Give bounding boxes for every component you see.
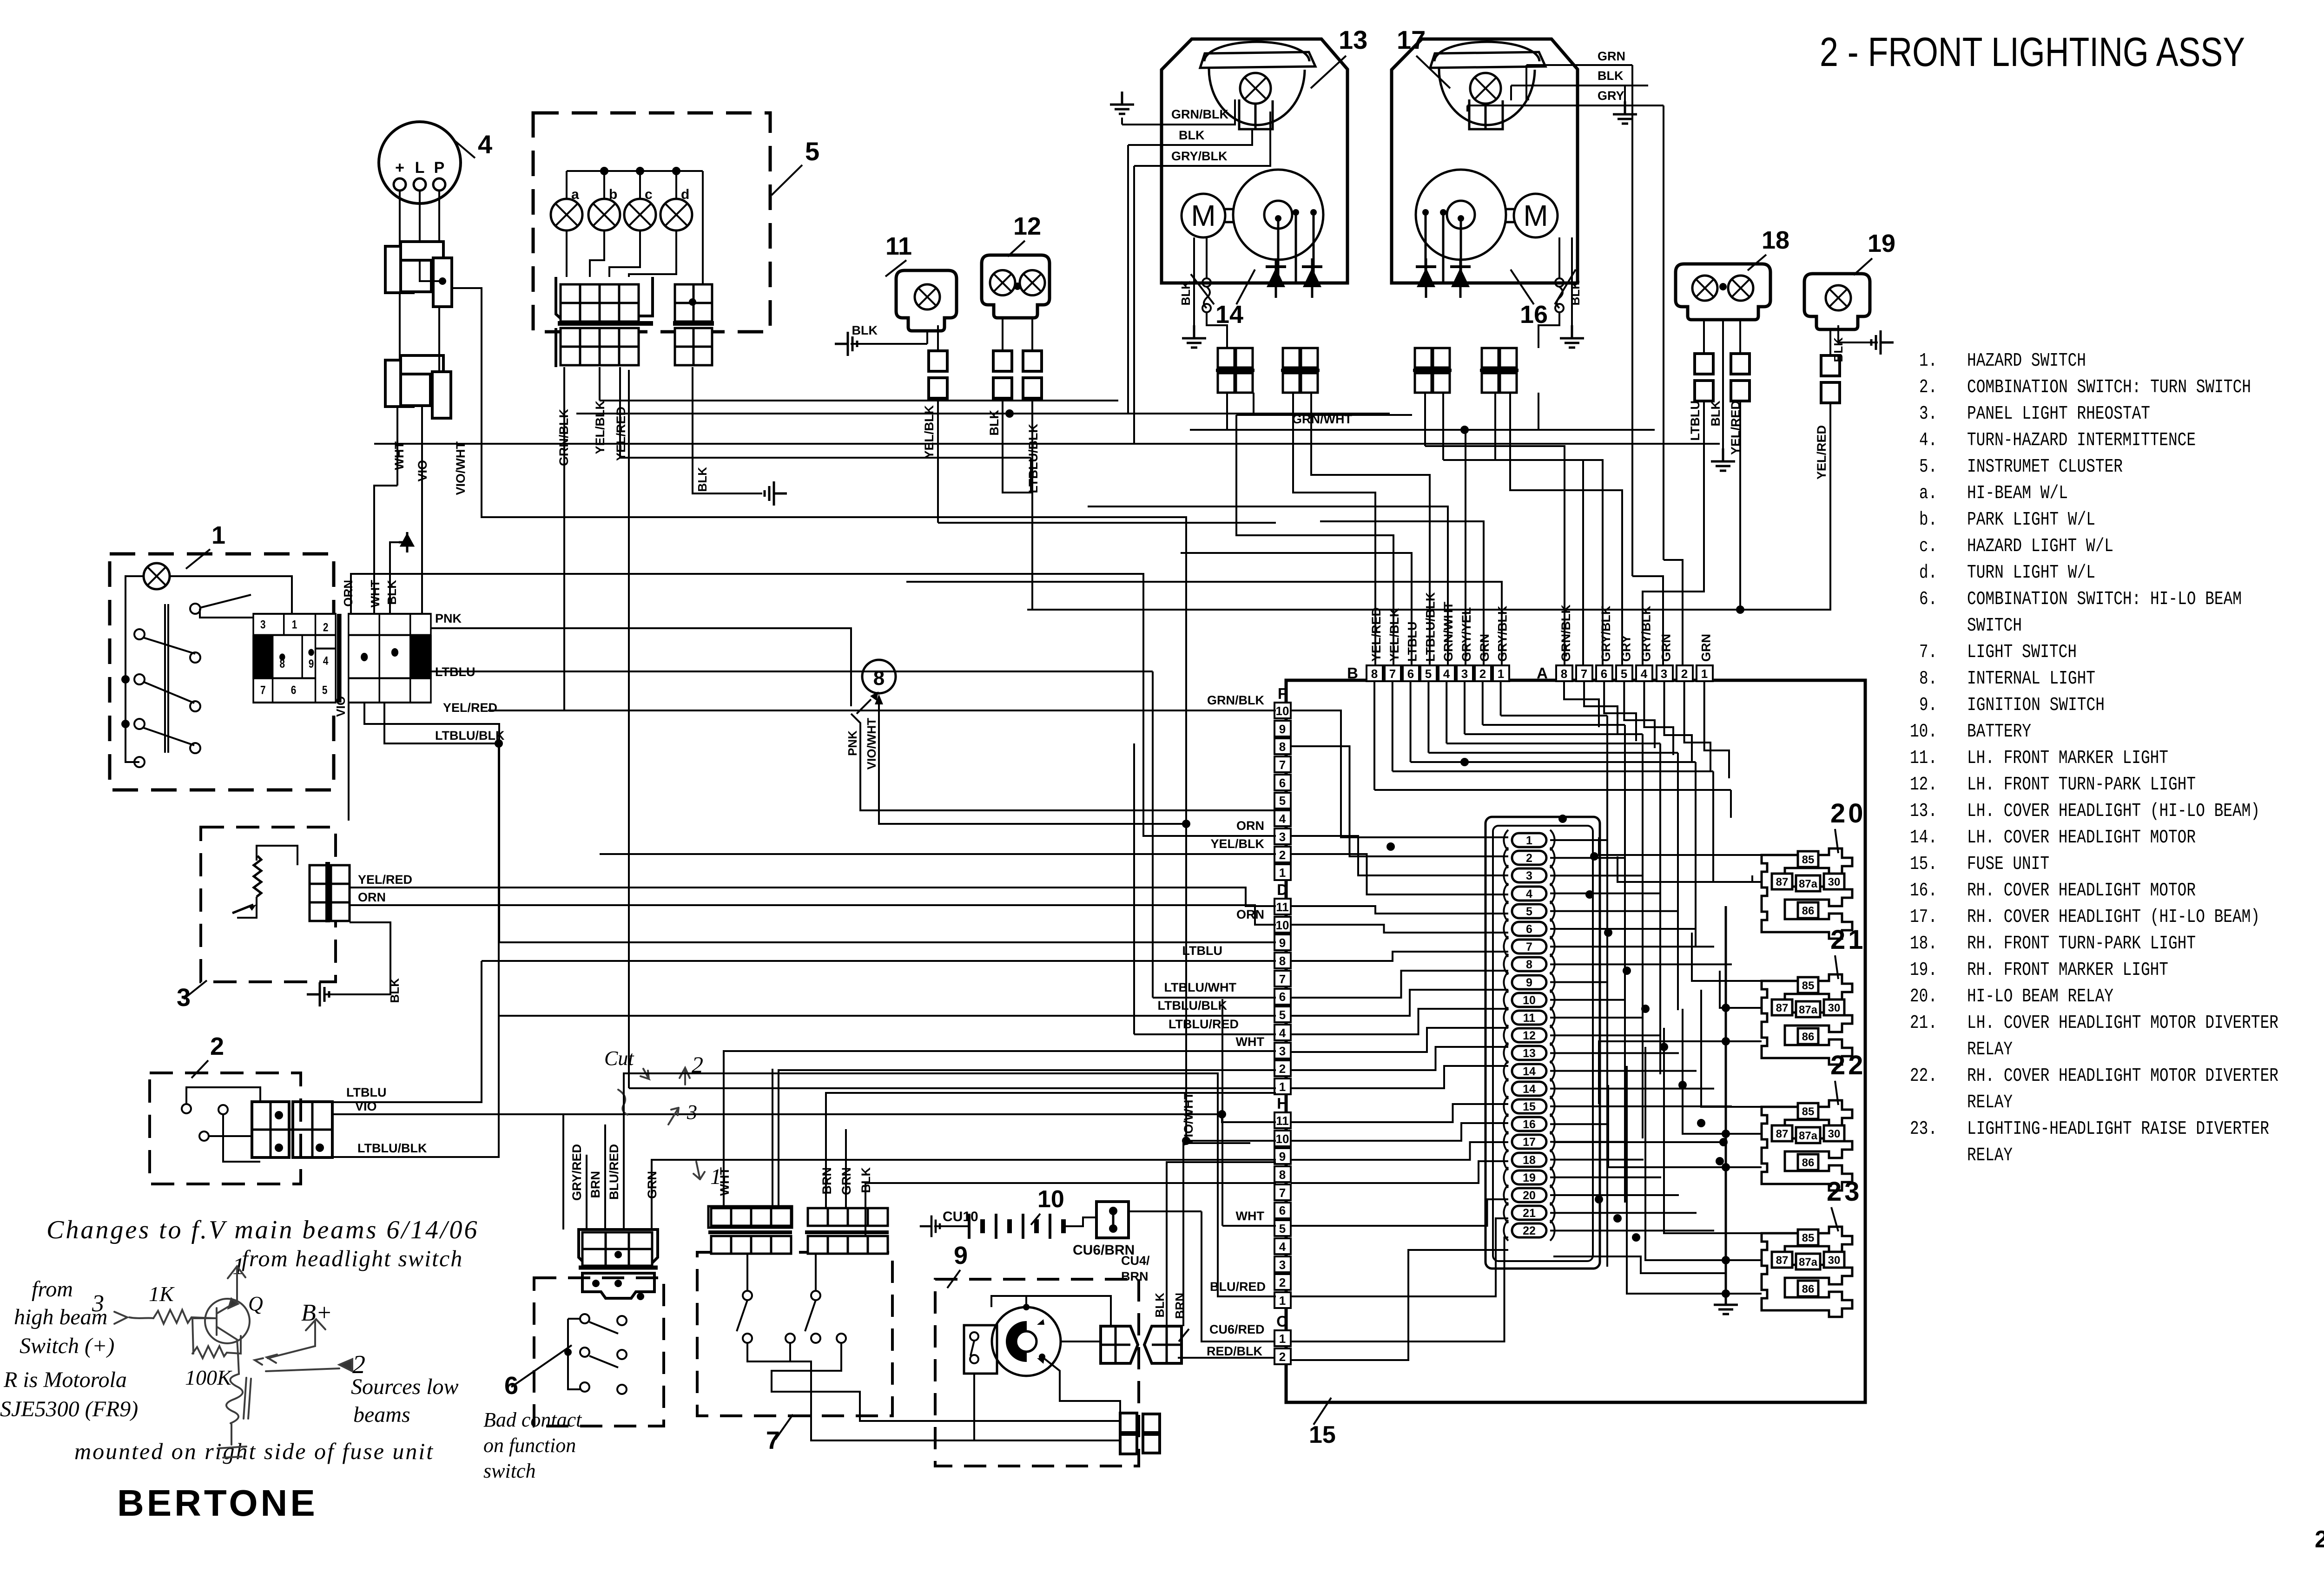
svg-text:PARK LIGHT W/L: PARK LIGHT W/L: [1967, 509, 2095, 531]
svg-text:D: D: [1277, 881, 1288, 898]
svg-text:87a: 87a: [1799, 1256, 1818, 1269]
svg-text:2: 2: [1681, 667, 1688, 681]
svg-text:YEL/RED: YEL/RED: [443, 701, 497, 715]
wires inside 9: [1026, 1296, 1111, 1326]
svg-text:8: 8: [1371, 667, 1378, 681]
connector below 11: [937, 325, 939, 351]
svg-text:BLU/RED: BLU/RED: [1210, 1280, 1266, 1294]
svg-text:LIGHTING-HEADLIGHT RAISE DIVER: LIGHTING-HEADLIGHT RAISE DIVERTER: [1967, 1118, 2269, 1140]
LH front turn-park light 12: [982, 255, 1050, 318]
svg-text:LTBLU/WHT: LTBLU/WHT: [1164, 980, 1237, 994]
svg-text:HI-BEAM W/L: HI-BEAM W/L: [1967, 483, 2068, 504]
svg-text:14: 14: [1523, 1083, 1536, 1096]
svg-text:YEL/BLK: YEL/BLK: [1210, 837, 1264, 851]
svg-text:B+: B+: [301, 1300, 332, 1326]
LH front marker light 11: [896, 270, 957, 331]
svg-text:9: 9: [1279, 722, 1286, 736]
svg-text:17: 17: [1523, 1136, 1536, 1149]
svg-text:INSTRUMET CLUSTER: INSTRUMET CLUSTER: [1967, 456, 2123, 478]
BLK BRN risers: [1167, 1162, 1276, 1326]
wire RED/BLK to O2: [1178, 1357, 1274, 1359]
svg-text:30: 30: [1828, 1128, 1841, 1140]
svg-text:RELAY: RELAY: [1967, 1092, 2013, 1113]
svg-text:BLK: BLK: [695, 467, 709, 492]
internal light ref 8: [862, 660, 896, 693]
svg-text:1: 1: [1279, 1294, 1286, 1308]
svg-text:87: 87: [1776, 1128, 1789, 1140]
panel light rheostat 3 dashed box: [201, 827, 336, 982]
svg-text:3: 3: [1279, 1258, 1286, 1272]
svg-text:20: 20: [1523, 1189, 1536, 1202]
svg-text:6: 6: [504, 1372, 518, 1400]
svg-text:5: 5: [1526, 905, 1532, 918]
svg-text:15.: 15.: [1910, 854, 1937, 875]
svg-text:10.: 10.: [1910, 721, 1937, 743]
svg-text:ORN: ORN: [1236, 819, 1264, 833]
svg-text:5: 5: [322, 684, 328, 697]
svg-text:2: 2: [1479, 667, 1486, 681]
svg-text:19.: 19.: [1910, 960, 1937, 981]
svg-text:9: 9: [1279, 1150, 1286, 1164]
svg-text:1: 1: [1498, 667, 1504, 681]
relay 22 RH cover headlight motor diverter relay: [1762, 1100, 1852, 1190]
svg-text:2: 2: [1279, 848, 1286, 862]
svg-text:86: 86: [1802, 1031, 1815, 1043]
svg-text:7: 7: [1279, 972, 1286, 986]
wire CU6/RED to O1: [1202, 1211, 1274, 1341]
svg-text:RH. COVER HEADLIGHT (HI-LO BEA: RH. COVER HEADLIGHT (HI-LO BEAM): [1967, 907, 2260, 928]
svg-text:3: 3: [687, 1101, 697, 1124]
svg-text:PNK: PNK: [435, 611, 462, 625]
connectors CU4 of ignition: [1101, 1326, 1138, 1363]
svg-text:LTBLU/BLK: LTBLU/BLK: [1158, 999, 1228, 1013]
svg-text:1: 1: [1701, 667, 1708, 681]
wire LTBLU from hazard switch: [431, 671, 1153, 672]
svg-text:13: 13: [1339, 25, 1367, 54]
fuse unit internal ground rail: [1725, 906, 1727, 1301]
svg-text:mounted on right side of fuse: mounted on right side of fuse unit: [74, 1438, 434, 1464]
svg-text:LTBLU/BLK: LTBLU/BLK: [357, 1141, 427, 1155]
svg-text:17: 17: [1397, 25, 1426, 54]
svg-text:7: 7: [260, 684, 266, 697]
svg-text:30: 30: [1828, 876, 1841, 888]
svg-text:2: 2: [352, 1350, 365, 1379]
svg-text:7: 7: [1526, 940, 1532, 953]
headlight assembly 17 (RH cover headlight hi-lo beam): [1392, 39, 1578, 283]
connectors below 12: [1002, 318, 1004, 351]
svg-text:GRY: GRY: [1598, 89, 1624, 103]
connector A wire labels: [1559, 604, 1575, 663]
svg-text:85: 85: [1802, 1232, 1815, 1244]
svg-text:RH. COVER HEADLIGHT MOTOR: RH. COVER HEADLIGHT MOTOR: [1967, 880, 2196, 901]
svg-text:Switch (+): Switch (+): [20, 1334, 114, 1358]
svg-text:30: 30: [1828, 1254, 1841, 1267]
svg-text:9: 9: [309, 657, 314, 670]
svg-text:IGNITION SWITCH: IGNITION SWITCH: [1967, 695, 2105, 716]
connector B wire labels: [1369, 604, 1386, 663]
svg-text:LH. COVER HEADLIGHT (HI-LO BEA: LH. COVER HEADLIGHT (HI-LO BEAM): [1967, 801, 2260, 822]
ignition aux contacts: [964, 1325, 997, 1374]
svg-text:16: 16: [1520, 301, 1548, 329]
wire VIO long bus from switch 2: [332, 1114, 1276, 1122]
svg-text:GRN/BLK: GRN/BLK: [1207, 693, 1264, 707]
svg-text:4: 4: [1279, 1240, 1286, 1254]
connector of unit 4: [385, 246, 413, 293]
svg-text:3: 3: [1279, 830, 1286, 844]
bus wires into left connector of fuse unit: [488, 710, 1276, 711]
svg-text:85: 85: [1802, 1105, 1815, 1118]
svg-text:9.: 9.: [1919, 695, 1937, 716]
svg-text:LTBLU: LTBLU: [1182, 944, 1222, 958]
svg-text:BLK: BLK: [1179, 281, 1193, 306]
svg-text:GRN/BLK: GRN/BLK: [1171, 107, 1228, 121]
svg-text:16.: 16.: [1910, 880, 1937, 901]
svg-text:1: 1: [1279, 1080, 1286, 1094]
svg-text:VIO/WHT: VIO/WHT: [1182, 1092, 1195, 1146]
switch 1 connector block: [253, 614, 431, 703]
svg-text:87: 87: [1776, 876, 1789, 888]
svg-text:SJE5300 (FR9): SJE5300 (FR9): [0, 1397, 138, 1421]
svg-text:Changes to f.V main beams 6: Changes to f.V main beams 6/14/06: [46, 1216, 479, 1244]
instrument cluster 5 dashed box: [533, 113, 770, 332]
svg-text:4: 4: [1279, 1026, 1286, 1040]
svg-text:14: 14: [1215, 301, 1243, 329]
svg-text:d.: d.: [1919, 562, 1937, 584]
relay 23 lighting-headlight raise diverter relay: [1762, 1227, 1852, 1317]
svg-text:P: P: [434, 159, 445, 177]
switch 7 outputs to ignition connectors: [832, 1392, 1120, 1421]
diodes under headlight 17: [1425, 258, 1427, 298]
svg-text:2: 2: [1279, 1276, 1286, 1289]
svg-text:14: 14: [1523, 1065, 1536, 1078]
svg-text:A: A: [1537, 664, 1548, 682]
svg-text:11: 11: [1276, 900, 1289, 914]
svg-text:21.: 21.: [1910, 1013, 1937, 1034]
cluster connectors: [556, 277, 653, 322]
svg-text:LTBLU/BLK: LTBLU/BLK: [435, 729, 505, 743]
svg-text:LTBLU: LTBLU: [1688, 401, 1702, 441]
svg-text:1: 1: [1526, 834, 1532, 847]
svg-text:HAZARD SWITCH: HAZARD SWITCH: [1967, 350, 2086, 372]
svg-text:FUSE UNIT: FUSE UNIT: [1967, 854, 2049, 875]
switch 7 connectors: [711, 1208, 731, 1226]
svg-text:from headlight switch: from headlight switch: [242, 1245, 463, 1271]
ground arrow near switch 1: [402, 532, 413, 552]
lower connector of unit 4: [385, 360, 413, 407]
svg-text:R is Motorola: R is Motorola: [3, 1368, 127, 1392]
svg-text:BLK: BLK: [1153, 1293, 1167, 1318]
svg-text:BLK: BLK: [852, 323, 878, 337]
svg-text:Cut: Cut: [604, 1047, 634, 1070]
svg-text:BERTONE: BERTONE: [117, 1482, 318, 1524]
svg-text:YEL/BLK: YEL/BLK: [593, 401, 607, 454]
svg-text:2: 2: [210, 1032, 224, 1060]
svg-text:COMBINATION SWITCH: TURN SWITC: COMBINATION SWITCH: TURN SWITCH: [1967, 377, 2251, 398]
svg-text:6: 6: [291, 684, 297, 697]
svg-text:from: from: [32, 1277, 73, 1302]
svg-text:6: 6: [1279, 990, 1286, 1004]
svg-text:4: 4: [478, 130, 492, 159]
svg-text:10: 10: [1037, 1186, 1064, 1213]
relay 21 LH cover headlight motor diverter relay: [1762, 974, 1852, 1065]
svg-text:PANEL LIGHT RHEOSTAT: PANEL LIGHT RHEOSTAT: [1967, 403, 2150, 425]
svg-text:RH. FRONT MARKER LIGHT: RH. FRONT MARKER LIGHT: [1967, 960, 2168, 981]
svg-text:86: 86: [1802, 1283, 1815, 1295]
svg-text:6.: 6.: [1919, 589, 1937, 610]
svg-text:16: 16: [1523, 1118, 1536, 1131]
svg-text:RH. FRONT TURN-PARK LIGHT: RH. FRONT TURN-PARK LIGHT: [1967, 933, 2196, 954]
svg-text:c.: c.: [1919, 536, 1937, 557]
svg-text:3: 3: [1526, 869, 1532, 882]
svg-text:15: 15: [1309, 1421, 1336, 1448]
wire LTBLU/BLK from switch 2 to D5: [332, 1016, 499, 1157]
svg-text:12: 12: [1013, 212, 1041, 240]
svg-text:switch: switch: [483, 1460, 535, 1482]
diodes under headlight 13: [1275, 258, 1277, 298]
svg-text:BLK: BLK: [1598, 69, 1624, 83]
svg-text:11.: 11.: [1910, 748, 1937, 769]
svg-text:23.: 23.: [1910, 1118, 1937, 1140]
headlight assembly 13 (LH cover headlight hi-lo beam): [1162, 39, 1347, 283]
svg-text:L: L: [415, 159, 425, 177]
wire GRN/BLK cluster to F10: [564, 367, 1274, 710]
svg-text:3: 3: [92, 1290, 104, 1317]
connectors below 18: [1703, 320, 1705, 354]
svg-text:on function: on function: [483, 1434, 576, 1457]
svg-text:2 - FRONT LIGHTING ASSY: 2 - FRONT LIGHTING ASSY: [1820, 29, 2245, 75]
ground for 11: [926, 331, 928, 344]
svg-text:8: 8: [1279, 740, 1286, 754]
svg-text:GRN: GRN: [1598, 49, 1625, 63]
rail taps to relays: [1726, 1007, 1762, 1009]
svg-text:87a: 87a: [1799, 878, 1818, 890]
lamp in switch 1: [144, 563, 170, 589]
svg-text:BLU/RED: BLU/RED: [607, 1144, 621, 1200]
svg-text:F: F: [1278, 685, 1287, 702]
svg-text:1: 1: [232, 1253, 244, 1280]
svg-text:VIO: VIO: [334, 696, 348, 717]
combination switch 2 dashed box: [150, 1073, 301, 1184]
svg-text:beams: beams: [353, 1402, 410, 1427]
svg-text:BRN: BRN: [588, 1171, 602, 1198]
svg-text:2.: 2.: [1919, 377, 1937, 398]
svg-text:Bad contact: Bad contact: [483, 1408, 582, 1431]
svg-text:BRN: BRN: [1121, 1269, 1149, 1283]
svg-text:TURN LIGHT W/L: TURN LIGHT W/L: [1967, 562, 2095, 584]
svg-text:2: 2: [2315, 1526, 2324, 1553]
svg-text:10: 10: [1276, 918, 1289, 932]
svg-text:87: 87: [1776, 1254, 1789, 1267]
wire cluster col d to D1: [628, 370, 630, 1088]
svg-text:85: 85: [1802, 980, 1815, 992]
svg-text:BLK: BLK: [385, 580, 399, 605]
ground left of 13: [1110, 92, 1134, 114]
svg-text:8: 8: [1279, 954, 1286, 968]
svg-text:5: 5: [1279, 794, 1286, 808]
svg-text:4: 4: [323, 654, 329, 667]
svg-text:3: 3: [260, 618, 266, 631]
svg-text:2: 2: [1279, 1062, 1286, 1076]
svg-text:GRY/RED: GRY/RED: [570, 1144, 584, 1201]
ignition switch mechanism: [992, 1307, 1061, 1376]
switch + BLK ground under motor 16: [1555, 278, 1564, 287]
svg-text:LIGHT SWITCH: LIGHT SWITCH: [1967, 642, 2077, 663]
svg-text:LH. COVER HEADLIGHT MOTOR DIVE: LH. COVER HEADLIGHT MOTOR DIVERTER: [1967, 1013, 2278, 1034]
svg-text:4: 4: [1641, 667, 1648, 681]
handwritten cut note and arrows 1 2 3: [618, 1068, 705, 1179]
svg-text:86: 86: [1802, 1157, 1815, 1169]
svg-text:B: B: [1347, 664, 1358, 682]
svg-text:22: 22: [1830, 1050, 1866, 1080]
handwritten note: changes to lowbeams date: [0, 1216, 582, 1482]
svg-text:ORN: ORN: [358, 890, 386, 904]
svg-text:BLK: BLK: [1179, 128, 1205, 142]
svg-text:18.: 18.: [1910, 933, 1937, 954]
svg-text:6: 6: [1526, 923, 1532, 936]
svg-text:11: 11: [885, 232, 912, 260]
svg-text:3: 3: [1661, 667, 1667, 681]
svg-text:21: 21: [1830, 925, 1866, 955]
switch 6 connector: [579, 1230, 658, 1268]
cluster warning lamps a b c d: [551, 199, 582, 230]
svg-text:RELAY: RELAY: [1967, 1145, 2013, 1166]
ignition switch 9 dashed box: [935, 1279, 1139, 1466]
svg-text:GRY/BLK: GRY/BLK: [1599, 605, 1613, 662]
svg-text:VIO/WHT: VIO/WHT: [454, 441, 468, 495]
fuse unit U15 outline: [1286, 680, 1865, 1402]
svg-text:5: 5: [1621, 667, 1627, 681]
svg-text:SWITCH: SWITCH: [1967, 615, 2022, 637]
svg-text:13.: 13.: [1910, 801, 1937, 822]
svg-text:7: 7: [1389, 667, 1396, 681]
svg-text:8: 8: [1561, 667, 1567, 681]
svg-text:YEL/RED: YEL/RED: [358, 873, 412, 887]
wire LTBLU from switch 2 to D8: [332, 961, 482, 1102]
svg-text:LH. COVER HEADLIGHT MOTOR: LH. COVER HEADLIGHT MOTOR: [1967, 827, 2196, 848]
svg-text:Q: Q: [248, 1292, 263, 1315]
svg-text:11: 11: [1276, 1114, 1289, 1128]
svg-text:14.: 14.: [1910, 827, 1937, 848]
CU6/BRN link box: [1096, 1202, 1129, 1238]
svg-text:18: 18: [1762, 226, 1789, 254]
svg-text:1: 1: [1279, 1332, 1286, 1346]
svg-text:O: O: [1276, 1313, 1288, 1330]
svg-text:WHT: WHT: [392, 441, 406, 470]
svg-text:8: 8: [1279, 1168, 1286, 1182]
svg-text:15: 15: [1523, 1100, 1536, 1113]
turn-hazard intermittence unit 4: [379, 122, 461, 204]
svg-text:5: 5: [1425, 667, 1432, 681]
svg-text:21: 21: [1523, 1207, 1536, 1220]
svg-text:Sources low: Sources low: [351, 1374, 459, 1399]
svg-text:8: 8: [1526, 958, 1532, 971]
svg-text:3: 3: [1279, 1044, 1286, 1058]
svg-text:ORN: ORN: [341, 580, 355, 607]
svg-text:3: 3: [1461, 667, 1468, 681]
svg-text:WHT: WHT: [1236, 1035, 1265, 1049]
fuse row: fuses 1-22: [1486, 817, 1600, 1269]
svg-text:4: 4: [1443, 667, 1450, 681]
combination hi-lo switch 6 dashed box: [534, 1278, 664, 1426]
svg-text:7.: 7.: [1919, 642, 1937, 663]
switch 1 contacts: [190, 604, 200, 614]
svg-text:10: 10: [1276, 1132, 1289, 1146]
svg-text:BLK: BLK: [1709, 401, 1723, 427]
svg-text:20: 20: [1830, 798, 1866, 828]
svg-text:6: 6: [1601, 667, 1607, 681]
svg-text:87a: 87a: [1799, 1130, 1818, 1142]
connectors under headlight 13: [1218, 348, 1235, 368]
hazard switch 1 dashed box: [110, 554, 334, 790]
RH front turn-park light 18: [1676, 264, 1770, 320]
svg-text:GRY/BLK: GRY/BLK: [1639, 605, 1653, 662]
svg-text:1.: 1.: [1919, 350, 1937, 372]
svg-text:GRN: GRN: [1699, 634, 1713, 662]
svg-text:a: a: [571, 187, 579, 202]
svg-text:20.: 20.: [1910, 986, 1937, 1007]
svg-text:85: 85: [1802, 854, 1815, 866]
ground of 3: [325, 922, 390, 994]
svg-text:PNK: PNK: [845, 730, 859, 756]
svg-text:2: 2: [1279, 1350, 1286, 1364]
svg-text:22: 22: [1523, 1224, 1536, 1237]
svg-text:BLK: BLK: [1568, 281, 1582, 306]
svg-text:GRY/BLK: GRY/BLK: [1171, 149, 1228, 163]
svg-text:23: 23: [1827, 1177, 1862, 1207]
svg-text:9: 9: [1526, 976, 1532, 989]
svg-text:GRN: GRN: [1659, 634, 1673, 662]
svg-text:6: 6: [1407, 667, 1414, 681]
svg-text:1: 1: [1279, 866, 1286, 880]
svg-text:19: 19: [1868, 230, 1895, 257]
wire LTBLU/BLK from hazard switch: [384, 703, 499, 1016]
svg-text:6: 6: [1279, 1203, 1286, 1217]
svg-text:5: 5: [805, 137, 819, 166]
svg-text:c: c: [645, 187, 653, 202]
svg-text:a.: a.: [1919, 483, 1937, 504]
svg-text:7: 7: [1581, 667, 1587, 681]
relay 20 HI-LO beam relay: [1762, 848, 1852, 939]
svg-text:8.: 8.: [1919, 668, 1937, 690]
svg-text:CU6/BRN: CU6/BRN: [1073, 1243, 1135, 1258]
svg-text:3: 3: [177, 984, 191, 1012]
svg-text:+: +: [395, 159, 404, 177]
svg-text:VIO/WHT: VIO/WHT: [865, 718, 878, 769]
light switch 7 dashed box: [697, 1252, 892, 1416]
svg-text:100K: 100K: [185, 1366, 232, 1389]
svg-text:7: 7: [766, 1427, 780, 1454]
connector below 19: [1829, 329, 1831, 355]
switch + BLK ground under motor 14: [1202, 278, 1211, 287]
RH front marker light 19: [1804, 274, 1870, 329]
svg-text:BATTERY: BATTERY: [1967, 721, 2031, 743]
bottom connectors of 9: [1120, 1413, 1137, 1433]
svg-text:BRN: BRN: [1173, 1293, 1187, 1319]
svg-text:13: 13: [1523, 1047, 1536, 1060]
svg-text:b.: b.: [1919, 509, 1937, 531]
svg-text:8: 8: [873, 667, 885, 690]
svg-text:2: 2: [323, 621, 329, 634]
svg-text:9: 9: [954, 1242, 968, 1269]
svg-text:CU10: CU10: [943, 1209, 978, 1224]
switch 1 right connector: [349, 614, 431, 703]
svg-text:HI-LO BEAM RELAY: HI-LO BEAM RELAY: [1967, 986, 2113, 1007]
svg-text:M: M: [1523, 199, 1548, 232]
svg-text:7: 7: [1279, 758, 1286, 772]
svg-text:d: d: [681, 187, 689, 202]
svg-text:3.: 3.: [1919, 403, 1937, 425]
ground right of 17: [1613, 101, 1637, 124]
